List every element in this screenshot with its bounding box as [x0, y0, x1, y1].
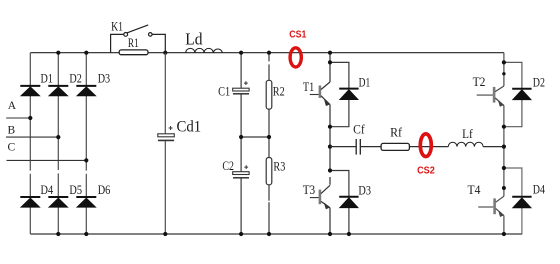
node junction dot R1 right [163, 51, 167, 55]
svg-text:T1: T1 [303, 79, 314, 94]
diode D3 [76, 86, 96, 96]
capacitor Cd1 [158, 126, 175, 140]
svg-text:A: A [8, 100, 17, 112]
node C phase input wire [7, 159, 87, 161]
svg-text:D2: D2 [533, 74, 545, 89]
svg-text:C1: C1 [218, 84, 230, 99]
svg-text:D4: D4 [41, 182, 54, 197]
wire C1 C2 column [240, 53, 242, 234]
resistor R3 [266, 158, 272, 185]
capacitor C1 [233, 81, 249, 94]
node junction dot T2 collector [502, 72, 505, 75]
node junction dot Lf arrive [502, 145, 506, 149]
wire Cf branch [330, 146, 356, 148]
node junction dot phase A [28, 116, 32, 120]
wire bridge leg 1 [29, 53, 31, 234]
node junction dot Cd1 bottom [163, 232, 167, 236]
wire gap artifact leg 2 [57, 170, 60, 173]
node junction dot R3 bottom [267, 232, 271, 236]
current sensor CS2 [420, 134, 431, 157]
resistor Rf [381, 143, 409, 150]
node junction dot phase B [56, 135, 60, 139]
svg-text:T4: T4 [468, 182, 481, 197]
diode D4 [20, 197, 40, 207]
svg-text:CS2: CS2 [417, 165, 435, 177]
node junction dot T3 bottom [328, 232, 332, 236]
node junction dot D2 rejoin [502, 125, 506, 129]
svg-text:D6: D6 [98, 182, 111, 197]
resistor R1 [119, 50, 148, 55]
capacitor C2 [233, 165, 249, 178]
switch K1 lever [127, 25, 148, 33]
svg-text:Lf: Lf [462, 126, 473, 141]
node junction dot phase C [84, 158, 88, 162]
svg-text:D1: D1 [359, 74, 371, 89]
svg-text:Rf: Rf [390, 125, 403, 140]
node junction dot D3 bottom [347, 232, 351, 236]
svg-text:C2: C2 [222, 158, 234, 173]
wire gap artifact leg 3 [85, 171, 88, 174]
wire Rf to Lf [409, 146, 448, 148]
wire Cd1 column [164, 53, 166, 234]
inductor Lf [448, 142, 483, 146]
node junction dot Cf tap [328, 145, 332, 149]
wire T4 collector stub [503, 188, 505, 196]
node junction dot R2 top [267, 51, 271, 55]
svg-text:Cd1: Cd1 [177, 118, 202, 135]
svg-text:Cf: Cf [353, 122, 365, 137]
wire gap artifact R2 column [268, 61, 271, 64]
node junction dot R2 bottom [267, 135, 271, 139]
diode D6 [76, 197, 96, 207]
switch K1 contacts [124, 33, 152, 37]
diode D5 [48, 197, 68, 207]
wire Cf to Rf [361, 146, 381, 148]
current sensor CS1 [290, 48, 301, 67]
wire top rail [30, 52, 504, 54]
node junction dot T4 bottom [502, 232, 506, 236]
node junction dot D3 split [328, 168, 332, 172]
wire T2 T4 column [503, 53, 505, 234]
node B phase input wire [6, 136, 58, 138]
svg-text:K1: K1 [111, 20, 123, 34]
node A phase input wire [6, 117, 30, 119]
svg-text:D4: D4 [533, 182, 546, 197]
svg-text:B: B [8, 125, 16, 137]
wire T1 T3 column [329, 53, 331, 234]
svg-text:D5: D5 [69, 182, 82, 197]
node junction dot C1 bottom [239, 135, 243, 139]
wire Lf to right column [483, 146, 504, 148]
svg-text:D2: D2 [69, 70, 81, 85]
diode D4 freewheel loop [504, 168, 522, 234]
wire gap artifact leg 1 [29, 171, 32, 174]
node junction dot C1 top [239, 51, 243, 55]
node junction dot bridge top 2 [56, 51, 60, 55]
diode D1 freewheel loop [330, 62, 349, 126]
diode D2 [48, 86, 68, 96]
wire gap artifact R3 column [268, 201, 271, 203]
svg-text:T3: T3 [303, 182, 316, 197]
svg-text:T2: T2 [473, 74, 486, 89]
wire mid junction link [241, 136, 269, 138]
node junction dot bridge bottom 2 [56, 232, 60, 236]
transistor T3 [310, 185, 330, 209]
wire bottom rail [30, 233, 522, 235]
svg-text:CS1: CS1 [289, 29, 306, 41]
node junction dot bridge top 3 [84, 51, 88, 55]
transistor T1 [310, 82, 330, 106]
node junction dot D1 rejoin [328, 125, 332, 129]
svg-text:D1: D1 [41, 70, 53, 85]
node junction dot T4 collector [502, 186, 506, 190]
wire gap artifact T column [329, 172, 332, 176]
svg-text:R2: R2 [273, 83, 285, 98]
resistor R2 [266, 80, 272, 109]
switch K1 branch wire [111, 34, 166, 52]
node junction dot D2 split [502, 60, 506, 64]
diode D1 [20, 86, 40, 96]
svg-text:D3: D3 [358, 183, 371, 198]
capacitor Cf [356, 139, 360, 155]
diode D3 freewheel loop [330, 171, 349, 235]
inductor Ld [186, 48, 223, 52]
svg-text:D3: D3 [98, 70, 110, 85]
transistor T2 [477, 86, 504, 107]
node junction dot C2 bottom [239, 232, 243, 236]
svg-text:R1: R1 [128, 36, 139, 50]
node junction dot T1 top [328, 51, 332, 55]
svg-text:C: C [8, 141, 16, 153]
node junction dot D4 split [502, 166, 506, 170]
transistor T4 [478, 196, 504, 217]
node junction dot D1 split [328, 60, 332, 64]
wire bridge leg 2 [57, 53, 59, 234]
svg-text:R3: R3 [273, 158, 285, 173]
wire R2 R3 column [268, 53, 270, 234]
node junction dot bridge bottom 3 [84, 232, 88, 236]
svg-text:Ld: Ld [185, 29, 203, 48]
wire bridge leg 3 [85, 53, 87, 234]
diode D2 freewheel loop [504, 62, 522, 126]
